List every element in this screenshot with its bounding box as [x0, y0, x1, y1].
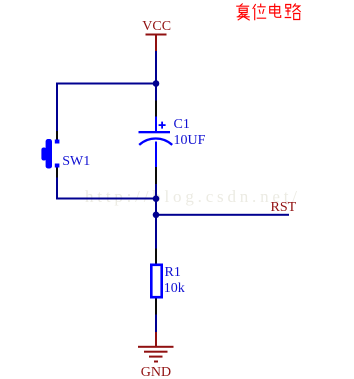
电 [270, 4, 281, 18]
power port GND symbol [138, 332, 174, 363]
wire left vertical upper [56, 83, 58, 132]
路 [285, 4, 301, 20]
wire horizontal bottom from switch to node B [56, 198, 157, 200]
value 10k [164, 282, 185, 296]
复 [236, 4, 250, 21]
watermark http://blog.csdn.net [85, 188, 301, 205]
label VCC [142, 20, 171, 34]
label SW1 [62, 155, 90, 169]
wire VCC to junction A [155, 51, 157, 84]
label C1 [174, 118, 190, 132]
capacitor C1 [139, 101, 173, 185]
title 复位电路 [236, 4, 301, 21]
label GND [141, 366, 171, 379]
wire resistor to GND [155, 315, 157, 333]
resistor R1 [151, 249, 161, 315]
node C junction dot [153, 212, 160, 219]
node B junction dot [153, 195, 160, 202]
wire horizontal top to switch branch [56, 83, 157, 85]
switch SW1 [41, 131, 59, 178]
node A junction dot [153, 80, 160, 87]
wire RST horizontal [156, 214, 289, 216]
位 [253, 4, 267, 21]
net label RST [271, 201, 297, 215]
power port VCC bar [146, 34, 167, 52]
label R1 [165, 266, 181, 280]
value 10UF [174, 134, 206, 148]
wire left vertical lower [56, 178, 58, 200]
wire capacitor to node C [155, 184, 157, 249]
wire junction A down to capacitor [155, 84, 157, 101]
